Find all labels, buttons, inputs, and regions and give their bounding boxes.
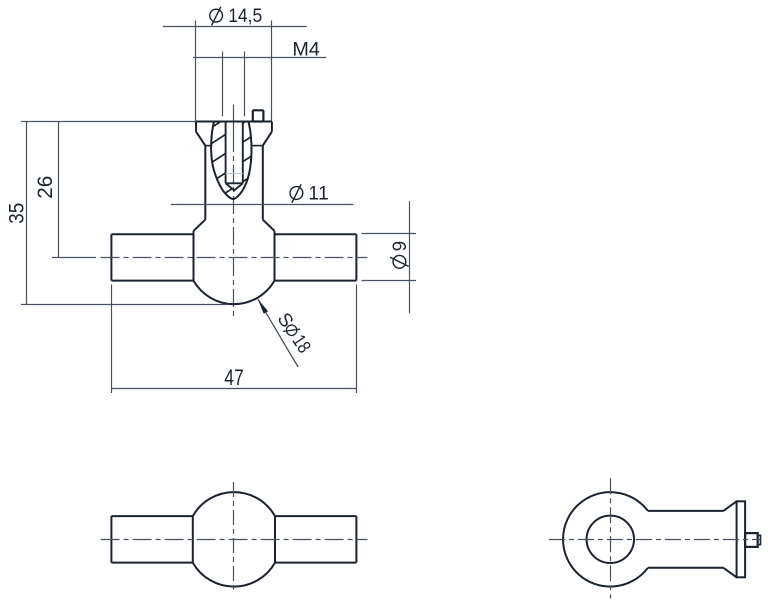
side view inner bar circle	[587, 516, 634, 563]
extension line 26 bottom	[52, 257, 96, 259]
leader SØ18 arrowhead	[258, 299, 268, 314]
dimension Ø9 extension line bottom	[362, 280, 417, 282]
svg-text:9: 9	[390, 241, 411, 252]
dimension 47 extension line left	[111, 285, 113, 394]
flange left side	[195, 122, 197, 132]
ball bottom arc	[194, 281, 275, 305]
dimension Ø9 dim line	[409, 201, 411, 313]
hatching	[205, 99, 255, 206]
side view neck top line	[648, 510, 724, 512]
dimension Ø14,5 extension line right	[271, 21, 273, 122]
bar bottom edge left	[111, 280, 193, 282]
centerline vertical (knob axis)	[233, 105, 235, 153]
svg-text:S: S	[273, 309, 298, 331]
neck right wall	[262, 146, 264, 220]
stud on flange (main view)	[253, 110, 264, 121]
side view stud tip	[758, 535, 761, 544]
bottom view bar left end	[110, 516, 112, 563]
bar top edge right	[275, 233, 357, 235]
label SØ18 (rotated)	[273, 309, 315, 357]
side view flange rect	[737, 501, 746, 577]
extension line 35 bottom	[21, 304, 229, 306]
dimension 47 extension line right	[356, 285, 358, 394]
bar left end	[110, 234, 112, 280]
dimension M4 dim line	[193, 57, 326, 59]
bottom view ball top arc	[193, 492, 275, 516]
tapped hole bottom	[226, 182, 243, 184]
svg-text:47: 47	[224, 365, 244, 390]
bar top edge left	[111, 233, 193, 235]
bar right end	[355, 234, 357, 280]
tapped hole left wall	[225, 122, 227, 184]
cone left slant	[196, 132, 205, 146]
dimension Ø11 dim line	[171, 204, 354, 206]
bottom view ball bottom arc	[193, 563, 275, 587]
side view centerline horizontal	[549, 539, 762, 541]
dimension 26 dim line	[58, 122, 60, 258]
drill point V	[226, 183, 243, 190]
thread depth faint line	[226, 173, 243, 175]
ball flat right	[274, 231, 276, 281]
ball chamfer right	[263, 220, 275, 231]
dimension 47 dim line	[112, 388, 357, 390]
bottom view bar bottom edges	[111, 562, 356, 564]
dimension Ø14,5 extension line left	[195, 21, 197, 122]
svg-text:14,5: 14,5	[228, 6, 262, 27]
extension line top (35/26 to flange)	[21, 121, 196, 123]
label Ø11	[290, 184, 329, 205]
ball chamfer left	[194, 220, 206, 231]
side view stud	[745, 533, 758, 547]
side view outer ball circle	[563, 492, 648, 586]
dimension M4 extension line right	[244, 52, 246, 117]
bottom view centerline horizontal	[101, 539, 368, 541]
bar bottom edge right	[275, 280, 357, 282]
bottom view ball flat right	[274, 516, 276, 563]
ball flat left	[193, 231, 195, 281]
side view cone slant top	[723, 501, 736, 511]
cone seat line right	[251, 145, 263, 147]
side view cone slant bottom	[723, 568, 736, 578]
neck left wall	[204, 146, 206, 220]
bar centerline horizontal	[101, 257, 368, 259]
svg-text:35: 35	[6, 203, 29, 224]
dimension Ø14,5 dim line	[163, 26, 307, 28]
bullet cavity outline	[211, 122, 251, 200]
tapped hole right wall	[242, 122, 244, 184]
dimension 35 dim line	[26, 122, 28, 305]
svg-text:11: 11	[308, 184, 329, 205]
svg-text:M4: M4	[292, 39, 320, 60]
label Ø14,5	[210, 6, 263, 27]
label Ø9 (rotated)	[390, 241, 411, 268]
side view neck bottom line	[648, 567, 724, 569]
leader SØ18 line	[258, 299, 298, 367]
dimension Ø9 extension line top	[362, 233, 417, 235]
cone seat line left	[205, 145, 212, 147]
dimension M4 extension line left	[222, 52, 224, 117]
bottom view bar top edges	[111, 515, 356, 517]
bottom view ball flat left	[192, 516, 194, 563]
bottom view centerline vertical	[233, 482, 235, 590]
side view centerline vertical	[610, 478, 612, 598]
flange top line	[196, 121, 272, 123]
flange right side	[271, 122, 273, 132]
bottom view bar right end	[355, 516, 357, 563]
cone right slant	[263, 132, 272, 146]
svg-text:26: 26	[34, 176, 57, 199]
